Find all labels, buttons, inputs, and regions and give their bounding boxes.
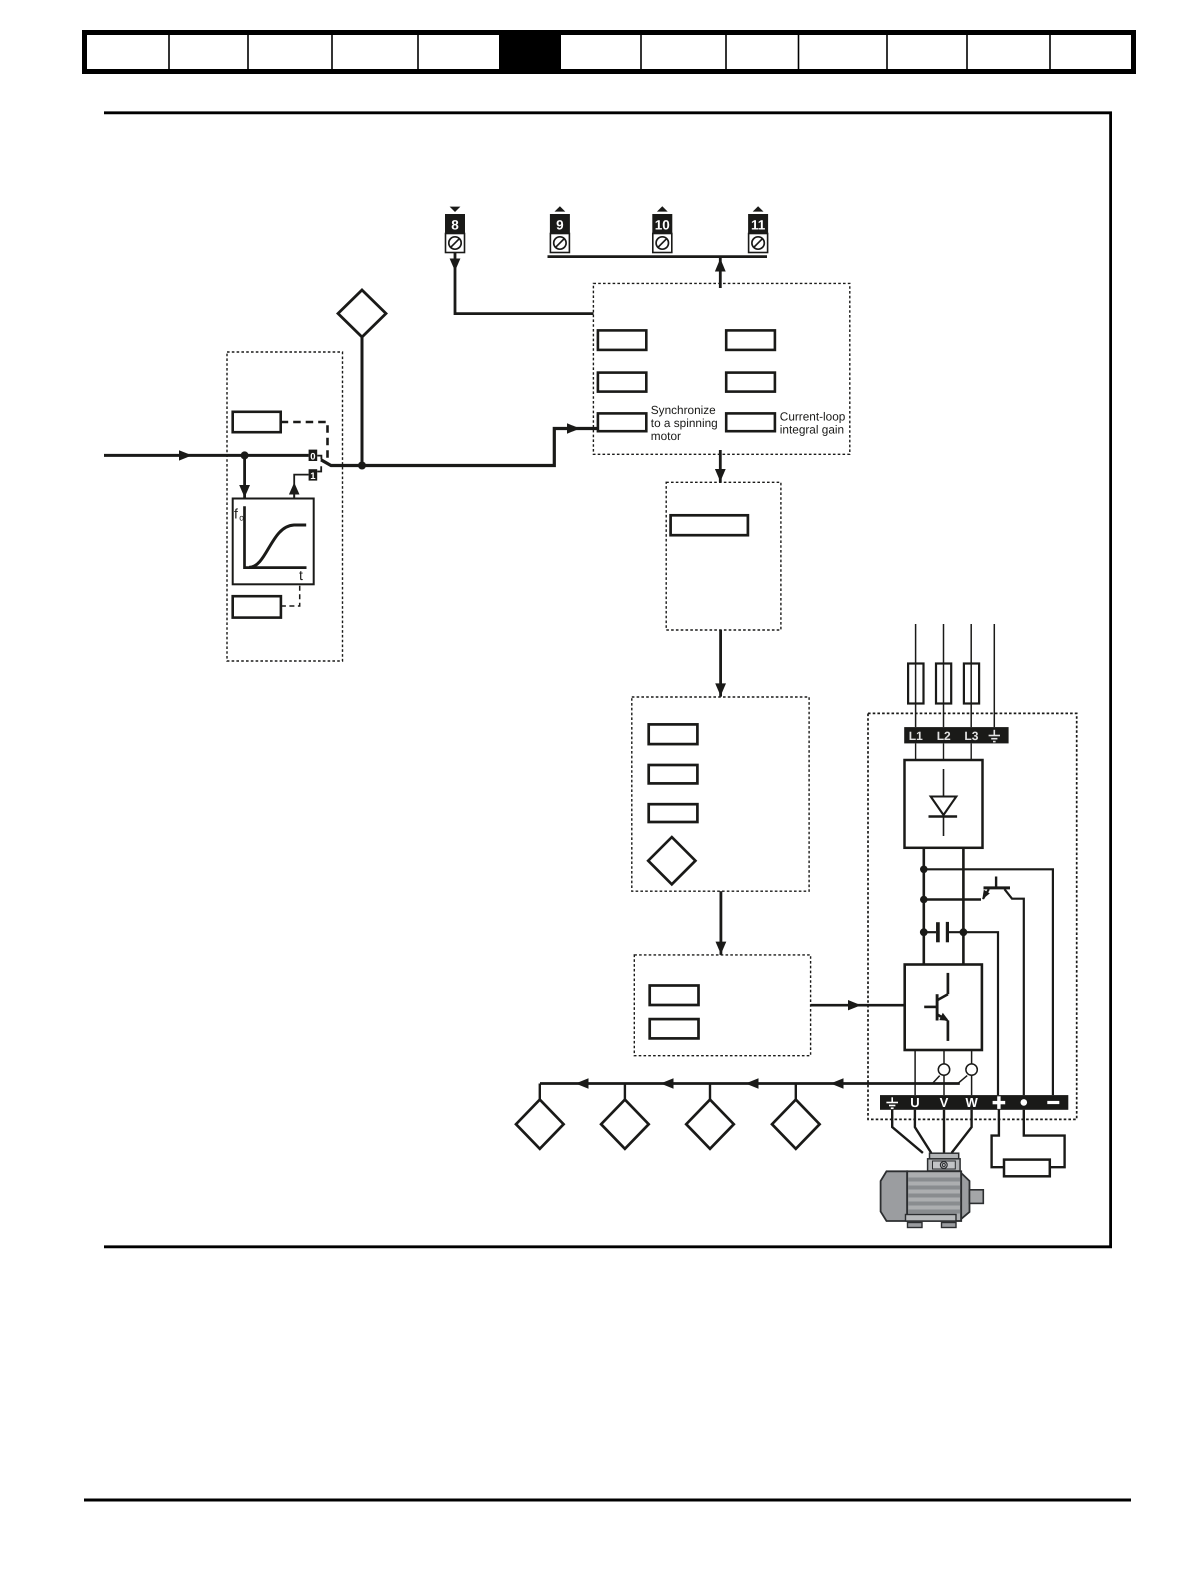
- svg-text:8: 8: [451, 218, 459, 233]
- svg-text:U: U: [910, 1095, 919, 1110]
- svg-text:L1: L1: [909, 729, 923, 743]
- svg-text:o: o: [239, 513, 244, 523]
- svg-text:motor: motor: [651, 429, 681, 443]
- svg-text:1: 1: [310, 471, 316, 482]
- svg-text:integral gain: integral gain: [780, 423, 844, 437]
- svg-text:W: W: [965, 1095, 978, 1110]
- svg-text:10: 10: [655, 218, 670, 233]
- svg-text:V: V: [940, 1095, 949, 1110]
- svg-text:11: 11: [751, 218, 766, 233]
- svg-text:L3: L3: [964, 729, 978, 743]
- svg-text:L2: L2: [937, 729, 951, 743]
- svg-text:to a spinning: to a spinning: [651, 416, 718, 430]
- svg-text:f: f: [234, 506, 238, 522]
- svg-text:Synchronize: Synchronize: [651, 403, 716, 417]
- svg-text:9: 9: [556, 218, 564, 233]
- svg-text:Current-loop: Current-loop: [780, 410, 846, 424]
- svg-text:t: t: [299, 567, 303, 583]
- svg-text:0: 0: [310, 451, 315, 462]
